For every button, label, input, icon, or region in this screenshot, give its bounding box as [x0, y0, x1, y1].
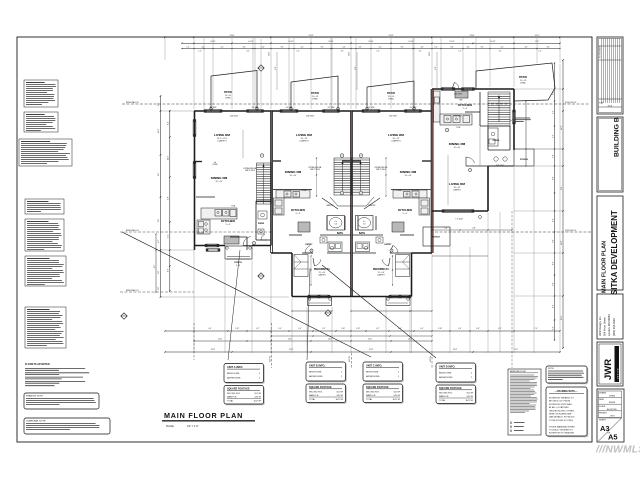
bottom extension lines: [193, 247, 195, 353]
party wall A-B: [270, 111, 272, 253]
svg-text:(OPNG): (OPNG): [225, 98, 231, 100]
svg-text:SECOND FLR.: SECOND FLR.: [439, 393, 453, 395]
svg-text:LIVING RM: LIVING RM: [449, 182, 465, 186]
svg-text:TOTAL: TOTAL: [309, 398, 316, 401]
svg-text:10' x 10': 10' x 10': [216, 181, 224, 183]
svg-text:SQUARE FOOTAGE: SQUARE FOOTAGE: [227, 387, 250, 390]
svg-text:8'-2": 8'-2": [553, 218, 555, 222]
svg-text:JWR Design, Inc.: JWR Design, Inc.: [598, 316, 602, 336]
portal wall stub unit A left: [195, 161, 203, 163]
svg-text:BE UELID 1/2" FROM: BE UELID 1/2" FROM: [549, 401, 570, 403]
svg-text:UNLESS NOTED OTHER-: UNLESS NOTED OTHER-: [549, 410, 575, 412]
bottom dimension row 3: [165, 351, 560, 353]
unit D kitchen wall extension line: [479, 127, 481, 166]
window unit D bottom: [444, 210, 472, 213]
leader diagonal to unit D info: [322, 265, 436, 358]
left dimension line inner: [169, 110, 171, 291]
door arc unit D entry: [466, 157, 475, 163]
svg-text:DRAWN: DRAWN: [599, 392, 607, 395]
leader to unit A info: [228, 250, 240, 360]
square footage box unit A: [225, 387, 265, 406]
top dimension line row 2: [182, 42, 560, 44]
vertical dim texts top: [276, 52, 278, 90]
toilets and sinks B C: [320, 237, 327, 243]
svg-text:4'-4": 4'-4": [278, 328, 282, 330]
svg-text:545 SF: 545 SF: [337, 395, 344, 397]
svg-text:///NWMLS: ///NWMLS: [595, 445, 640, 456]
svg-text:1'-6": 1'-6": [459, 51, 462, 53]
svg-text:SECOND FLR.: SECOND FLR.: [366, 392, 380, 394]
svg-text:10' x 10': 10' x 10': [454, 147, 462, 149]
stairs unit D: [488, 92, 510, 126]
circle tags at stair tops: [260, 154, 264, 158]
svg-text:2: 2: [261, 275, 262, 277]
right extension lines: [514, 88, 563, 90]
svg-text:DINING RM: DINING RM: [285, 170, 302, 174]
svg-text:Lynden, WA 98264: Lynden, WA 98264: [607, 314, 611, 336]
svg-text:UNIT LN: UNIT LN: [430, 356, 432, 362]
svg-text:3'-6": 3'-6": [400, 47, 404, 49]
patio unit A fence: [211, 71, 257, 112]
svg-text:7'-0": 7'-0": [553, 239, 555, 243]
svg-text:1'-10": 1'-10": [356, 328, 360, 330]
door arc unit B entry: [305, 246, 310, 254]
svg-text:EXTERIOR OF GRADING: EXTERIOR OF GRADING: [549, 432, 574, 435]
kitchen counter unit D horizontal: [440, 114, 472, 125]
svg-text:KITCHEN: KITCHEN: [458, 103, 473, 107]
interior walls pantry B C: [322, 198, 338, 209]
svg-text:10'-6": 10'-6": [328, 339, 332, 341]
unit D patio left edge: [475, 71, 477, 89]
unit leader extension dashed: [271, 323, 273, 368]
keynote extension line: [260, 39, 262, 66]
svg-text:6'-8: 6'-8: [334, 224, 337, 226]
svg-text:7' SUB: 7' SUB: [456, 127, 461, 129]
svg-text:6'-8: 6'-8: [363, 224, 366, 226]
unit C right porch: [423, 227, 450, 246]
svg-text:2: 2: [341, 155, 342, 157]
svg-text:SCALE: SCALE: [599, 405, 606, 408]
svg-text:SITKA DEVELOPMENT: SITKA DEVELOPMENT: [610, 210, 619, 295]
svg-text:11'-2": 11'-2": [168, 155, 170, 160]
svg-text:PANTRY: PANTRY: [368, 204, 376, 207]
svg-text:3'-6": 3'-6": [320, 47, 324, 49]
note box right: [547, 367, 588, 384]
svg-text:9'-0": 9'-0": [561, 186, 563, 190]
washer dryer closets B C: [328, 242, 342, 252]
svg-text:502 SF: 502 SF: [255, 393, 262, 395]
svg-text:14'-6": 14'-6": [158, 128, 160, 133]
unit info box D: [437, 364, 477, 383]
svg-text:1'-6": 1'-6": [539, 51, 542, 53]
unit A gray step: [224, 236, 239, 244]
unit D gray fridge: [455, 91, 468, 98]
svg-text:502 SF: 502 SF: [394, 392, 401, 394]
keynote diamond mid: [258, 273, 264, 279]
svg-text:10'-10": 10'-10": [329, 41, 334, 43]
svg-text:1'-4": 1'-4": [553, 91, 555, 95]
svg-text:1'-10": 1'-10": [438, 328, 442, 330]
svg-text:4'-4": 4'-4": [420, 47, 424, 49]
party wall B-C: [349, 111, 351, 296]
svg-text:SECOND FLR.: SECOND FLR.: [309, 392, 323, 394]
porch D circles: [494, 157, 498, 161]
svg-text:(OPNG): (OPNG): [520, 83, 526, 85]
svg-text:545 SF: 545 SF: [467, 396, 474, 398]
svg-text:3'-6": 3'-6": [480, 47, 484, 49]
square footage box unit D: [437, 386, 477, 405]
svg-text:10' x 10': 10' x 10': [312, 96, 319, 98]
svg-text:3'-0": 3'-0": [341, 51, 344, 53]
svg-text:10' x 10': 10' x 10': [290, 175, 298, 177]
svg-text:JAM DETAILS. PLYWOOD: JAM DETAILS. PLYWOOD: [549, 416, 575, 419]
svg-text:PORCH: PORCH: [520, 159, 528, 161]
svg-text:BATHROOMS:: BATHROOMS:: [366, 375, 380, 378]
svg-text:(CARPET): (CARPET): [300, 140, 309, 143]
svg-text:5'-4": 5'-4": [378, 47, 382, 49]
svg-text:4'-6": 4'-6": [158, 239, 160, 243]
left extension lines: [161, 110, 194, 112]
svg-text:ENTRY: ENTRY: [385, 244, 393, 246]
svg-text:BRNG WALL LN: BRNG WALL LN: [126, 289, 139, 292]
svg-text:4' x: 4' x: [363, 221, 366, 223]
svg-text:7'-0": 7'-0": [553, 282, 555, 286]
svg-text:7' SUB: 7' SUB: [231, 206, 236, 208]
unit D right wall window: [513, 112, 516, 122]
svg-text:4'-8": 4'-8": [476, 328, 480, 330]
svg-text:6040 SLDR: 6040 SLDR: [306, 116, 315, 118]
svg-text:CARPET: CARPET: [453, 189, 462, 192]
svg-text:PATIO: PATIO: [224, 90, 232, 94]
svg-text:8'-6": 8'-6": [553, 304, 555, 308]
svg-text:BEDROOMS:: BEDROOMS:: [309, 372, 322, 374]
closets bedrm B C: [294, 255, 308, 277]
svg-text:CARPET: CARPET: [318, 274, 327, 277]
revision table: [597, 37, 623, 114]
svg-text:D E S I G N: D E S I G N: [617, 368, 619, 379]
unit D porch thin outline: [514, 149, 534, 166]
patio unit D fence outline: [476, 63, 555, 101]
kitchen wall unit B: [273, 189, 312, 191]
svg-text:4'-0" x 2'-0": 4'-0" x 2'-0": [496, 165, 504, 167]
pwdr unit D fixtures: [488, 128, 498, 146]
bedroom porch B: [308, 297, 332, 306]
svg-text:12'-2": 12'-2": [561, 315, 563, 320]
stairs unit C: [352, 158, 370, 195]
short left dim line lower: [155, 234, 157, 292]
unit D entry walls: [466, 165, 488, 167]
svg-text:SECOND FLR.: SECOND FLR.: [227, 393, 241, 395]
svg-text:DREW: DREW: [609, 396, 615, 398]
party wall C-D: [430, 89, 432, 253]
svg-text:SHEET: SHEET: [599, 420, 607, 422]
svg-text:(P)SQ.WL.LN.: (P)SQ.WL.LN.: [565, 230, 577, 232]
porch post circles: [308, 298, 311, 301]
svg-text:NOTE:: NOTE:: [548, 368, 555, 370]
svg-text:9' x 9': 9' x 9': [403, 213, 408, 215]
svg-text:2: 2: [391, 250, 392, 252]
svg-text:10' x 10': 10' x 10': [388, 96, 395, 98]
unit A bottom window: [207, 244, 217, 247]
svg-text:SQUARE FOOTAGE: SQUARE FOOTAGE: [366, 386, 389, 389]
svg-text:4'-0": 4'-0": [435, 66, 437, 70]
svg-text:PORCH: PORCH: [432, 237, 440, 239]
top extension lines: [193, 38, 195, 109]
square footage box unit C: [364, 385, 404, 404]
stairs unit B: [334, 158, 352, 195]
svg-text:4'-8": 4'-8": [444, 228, 448, 230]
stairs landing B C: [330, 197, 374, 206]
svg-text:21'-8": 21'-8": [470, 35, 475, 37]
interior wall kitchen A: [196, 196, 215, 198]
svg-text:(OPNG): (OPNG): [388, 99, 394, 101]
svg-text:J W R: J W R: [609, 415, 615, 417]
top dimension line row 3: [182, 48, 560, 50]
svg-text:6040 SLDR: 6040 SLDR: [389, 116, 398, 118]
svg-text:TOTAL: TOTAL: [439, 399, 446, 402]
svg-text:11'-2": 11'-2": [535, 35, 540, 37]
unit A appliance column: [197, 220, 210, 234]
stairs unit A: [257, 163, 272, 204]
svg-text:TO BUILD TRUSSES TO: TO BUILD TRUSSES TO: [549, 430, 573, 432]
svg-text:DINING RM: DINING RM: [449, 142, 466, 146]
abbreviation key box: [508, 369, 541, 435]
svg-text:7'-4": 7'-4": [553, 134, 555, 138]
svg-text:REF: REF: [460, 99, 463, 101]
svg-text:2' SUB: 2' SUB: [302, 190, 307, 192]
svg-text:6'-2": 6'-2": [498, 328, 502, 330]
svg-text:1'-4": 1'-4": [434, 47, 438, 49]
svg-text:3'-6": 3'-6": [280, 47, 284, 49]
svg-text:MAIN FLR.: MAIN FLR.: [227, 395, 237, 398]
svg-text:10'-6": 10'-6": [218, 339, 222, 341]
svg-text:(360) 354-0333: (360) 354-0333: [612, 318, 616, 336]
svg-text:MAIN FLR.: MAIN FLR.: [309, 394, 319, 397]
svg-text:3'-6": 3'-6": [201, 47, 205, 49]
svg-text:BRNG WALL LN: BRNG WALL LN: [126, 101, 139, 104]
svg-text:VER 2T FIELD: VER 2T FIELD: [245, 170, 256, 172]
svg-text:4'-4": 4'-4": [420, 328, 424, 330]
top dimension line row 1: [165, 36, 560, 38]
svg-text:PATIO: PATIO: [311, 91, 319, 95]
svg-text:5'-4": 5'-4": [220, 47, 224, 49]
svg-text:4'-0": 4'-0": [275, 66, 277, 70]
interior walls unit A entry: [256, 200, 271, 202]
guardrail leader diagonal long: [122, 232, 371, 357]
unit D lower west wall: [487, 166, 489, 211]
windows on main top wall: [206, 110, 220, 113]
svg-text:4'-0" HDR: 4'-0" HDR: [328, 107, 336, 109]
svg-text:MAIN FLOOR PLAN: MAIN FLOOR PLAN: [602, 241, 608, 293]
svg-text:3'-6": 3'-6": [242, 47, 246, 49]
portal frame wall stubs: [273, 160, 282, 162]
svg-text:7'-0" SLDR: 7'-0" SLDR: [455, 219, 463, 221]
svg-text:4'-4": 4'-4": [524, 47, 528, 49]
svg-text:7'-4": 7'-4": [553, 110, 555, 114]
windows unit D top wall: [443, 88, 453, 91]
svg-text:(P)SQ.WL.LN.: (P)SQ.WL.LN.: [565, 102, 577, 104]
svg-text:6'-2": 6'-2": [256, 328, 260, 330]
svg-text:4'-4": 4'-4": [466, 47, 470, 49]
main top wall units A-C: [194, 110, 432, 112]
svg-text:5'-0": 5'-0": [158, 270, 160, 274]
svg-text:UNIT LN: UNIT LN: [349, 356, 351, 362]
svg-text:1047 SF: 1047 SF: [465, 400, 473, 402]
svg-text:9'-0": 9'-0": [553, 176, 555, 180]
svg-text:4'-4": 4'-4": [342, 47, 346, 49]
svg-text:3'-6": 3'-6": [546, 47, 550, 49]
svg-text:2: 2: [311, 250, 312, 252]
svg-text:BUILDING B: BUILDING B: [614, 117, 621, 157]
svg-text:SCALE: SCALE: [166, 425, 174, 428]
porch D side dim line: [525, 101, 527, 166]
svg-text:TO BE FLUSH W CONC): TO BE FLUSH W CONC): [549, 420, 574, 422]
interior walls B C bath entry: [289, 234, 302, 236]
svg-text:~~FRAMING NOTE~~: ~~FRAMING NOTE~~: [554, 390, 578, 393]
svg-text:21'-8": 21'-8": [453, 349, 458, 351]
svg-text:AT ALL LOCATIONS: AT ALL LOCATIONS: [549, 406, 569, 409]
svg-text:3'-0": 3'-0": [247, 51, 250, 53]
svg-text:6'-2": 6'-2": [376, 328, 380, 330]
unit info box A: [225, 365, 265, 384]
svg-text:4'-0" HDR: 4'-0" HDR: [368, 107, 376, 109]
svg-text:PWDR: PWDR: [258, 223, 265, 225]
svg-text:7'-0": 7'-0": [534, 328, 538, 330]
kitchen counter unit B L-shape: [276, 190, 310, 198]
svg-text:2'-0": 2'-0": [158, 286, 160, 290]
unit A pwdr door arc: [261, 234, 265, 240]
svg-text:10'-10": 10'-10": [369, 41, 374, 43]
svg-text:FRAMING NOTE:: FRAMING NOTE:: [26, 395, 44, 398]
svg-text:UNIT C INFO.: UNIT C INFO.: [366, 364, 383, 368]
svg-text:8'-4": 8'-4": [168, 121, 170, 125]
sheet border frame: [17, 37, 592, 442]
svg-text:10' x 10': 10' x 10': [520, 80, 527, 82]
svg-text:6'-4": 6'-4": [168, 234, 170, 238]
tiny note near pwdr D: [515, 117, 530, 119]
note block soundwall: [24, 80, 58, 107]
bedroom wing outline: [291, 253, 293, 297]
svg-text:5'-4": 5'-4": [300, 47, 304, 49]
svg-text:4'-4": 4'-4": [261, 47, 265, 49]
svg-text:4' x: 4' x: [335, 221, 338, 223]
svg-text:8/20/08: 8/20/08: [609, 402, 615, 404]
bottom dimension row 2 partial: [194, 340, 432, 342]
door arc unit A entry: [243, 237, 251, 246]
svg-text:UNIT B INFO.: UNIT B INFO.: [309, 364, 326, 368]
svg-text:21'-8": 21'-8": [289, 349, 294, 351]
unit A porch outline: [225, 246, 252, 259]
bath tub unit C: [356, 216, 374, 231]
svg-text:BEDROOMS:: BEDROOMS:: [366, 372, 379, 374]
step edge below unit D: [432, 255, 488, 257]
svg-text:502 SF: 502 SF: [337, 392, 344, 394]
svg-text:EXTERIOR STEP WALL: EXTERIOR STEP WALL: [549, 403, 573, 406]
patio fence post circles: [210, 107, 213, 110]
note block smoke alarm: [25, 199, 64, 214]
svg-text:24'-8": 24'-8": [561, 240, 563, 245]
note block duct sealing blower testing: [25, 256, 66, 286]
bedroom porch C: [386, 297, 410, 306]
svg-text:MAIN FLR.: MAIN FLR.: [366, 394, 376, 397]
framing note box right: [547, 388, 588, 437]
bottom dimension row 1b partial: [271, 335, 432, 337]
svg-text:2: 2: [253, 243, 254, 245]
keynote diamond top: [258, 65, 264, 71]
svg-text:10' x 10': 10' x 10': [405, 175, 413, 177]
svg-text:2: 2: [261, 155, 262, 157]
interior dim line unit D: [447, 155, 449, 205]
svg-text:8'-6": 8'-6": [168, 268, 170, 272]
svg-text:1'-10": 1'-10": [235, 328, 239, 330]
svg-text:BATHROOMS:: BATHROOMS:: [439, 376, 453, 379]
svg-text:10'-10": 10'-10": [491, 41, 496, 43]
svg-text:21'-8": 21'-8": [309, 35, 314, 37]
svg-text:LIVING RM: LIVING RM: [388, 133, 404, 137]
svg-text:NO. REVISIONS: NO. REVISIONS: [599, 46, 601, 58]
svg-text:2: 2: [446, 130, 447, 132]
svg-text:CARPET: CARPET: [377, 274, 386, 277]
svg-text:5'-8": 5'-8": [553, 154, 555, 158]
svg-text:6040 SLDR: 6040 SLDR: [230, 116, 239, 118]
interior walls unit D: [479, 92, 481, 126]
svg-text:CUPBD: CUPBD: [212, 164, 218, 166]
note block tankless hot water: [25, 307, 66, 348]
svg-text:10'-10": 10'-10": [211, 41, 216, 43]
unit A bottom wall: [195, 245, 226, 247]
svg-text:PWDR: PWDR: [493, 140, 500, 142]
svg-text:10'-6": 10'-6": [368, 339, 372, 341]
door arc bedrm C: [382, 259, 389, 266]
svg-text:GUARDRAIL NOTE:: GUARDRAIL NOTE:: [26, 420, 46, 423]
svg-text:EXTERIOR TREATED TO: EXTERIOR TREATED TO: [549, 397, 574, 400]
svg-text:JWR: JWR: [603, 359, 614, 380]
svg-text:9' x 9': 9' x 9': [226, 224, 231, 226]
stair up arrows B C: [342, 162, 344, 191]
bedroom interior dim lines: [310, 256, 312, 285]
unit C gray pantry block: [392, 222, 404, 232]
svg-text:BEDROOMS:: BEDROOMS:: [227, 373, 240, 375]
unit B C lower bath-entry walls: [271, 252, 292, 254]
svg-text:21'-8": 21'-8": [230, 35, 235, 37]
note block energy code compliance: [25, 219, 64, 251]
svg-text:2: 2: [341, 193, 342, 195]
svg-text:DATE: DATE: [599, 398, 605, 401]
svg-text:1'-10": 1'-10": [341, 328, 345, 330]
interior dim line unit A: [242, 130, 244, 158]
svg-text:1'-6": 1'-6": [199, 51, 202, 53]
svg-text:BRNG WALL LN: BRNG WALL LN: [126, 229, 139, 232]
svg-text:22'-0": 22'-0": [269, 52, 271, 56]
kitchen wall unit C: [391, 189, 431, 191]
svg-text:9' x 9': 9' x 9': [296, 213, 301, 215]
svg-text:10'-10": 10'-10": [450, 41, 455, 43]
svg-text:LIVING RM: LIVING RM: [296, 133, 312, 137]
svg-text:545 SF: 545 SF: [255, 396, 262, 398]
svg-text:22'-0": 22'-0": [349, 52, 351, 56]
svg-text:SQUARE FOOTAGE: SQUARE FOOTAGE: [309, 386, 332, 389]
unit D top wall: [432, 88, 514, 90]
svg-text:21'-8": 21'-8": [211, 349, 216, 351]
JWR logo panel: [597, 342, 623, 386]
kitchen counter unit C L-shape: [393, 190, 427, 198]
svg-text:KITCHEN: KITCHEN: [291, 208, 306, 212]
kitchen counter unit A horizontal: [201, 208, 237, 219]
svg-text:PORCH: PORCH: [234, 262, 242, 264]
svg-text:PATIO: PATIO: [519, 75, 527, 79]
project title panel SITKA DEVELOPMENT: [597, 196, 623, 290]
svg-text:5'-4": 5'-4": [500, 47, 504, 49]
